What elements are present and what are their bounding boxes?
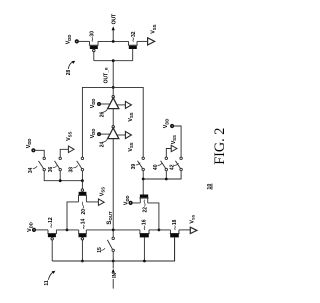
VDD terminal (for switch 34) <box>32 149 35 152</box>
svg-text:30: 30 <box>89 31 95 37</box>
label 38 <box>69 166 78 173</box>
junction T22/rail <box>158 229 161 232</box>
svg-text:VSS: VSS <box>128 112 134 121</box>
input bus <box>52 238 174 261</box>
wire VDD to transistor 12 <box>35 229 48 231</box>
OUT arrow <box>112 26 115 41</box>
left switch bus <box>44 171 82 181</box>
inverter 26 VDD pin <box>98 103 111 106</box>
svg-text:16: 16 <box>142 219 148 225</box>
label 40 <box>153 163 162 170</box>
gate of transistor 32 <box>132 49 134 61</box>
wire inverter 26 to inverter 24 <box>112 109 114 126</box>
svg-text:VSS: VSS <box>171 135 177 144</box>
label 26 <box>100 109 108 117</box>
VSS symbol (switch 40 feed) <box>171 145 177 151</box>
transistor 30 (PMOS) <box>89 41 99 51</box>
label 32 <box>131 31 137 41</box>
VSS symbol (transistor 20) <box>98 199 104 205</box>
IN arrow <box>112 261 115 289</box>
label 34 <box>28 166 37 173</box>
switch 39 <box>138 157 145 171</box>
node OUT_B junction <box>112 86 115 89</box>
svg-text:FIG. 2: FIG. 2 <box>212 128 228 165</box>
transistor 22 (MOS cap, gate up) <box>132 179 159 230</box>
wire transistor 32 to VSS <box>137 40 148 42</box>
label 24 <box>100 139 108 147</box>
svg-text:VDD: VDD <box>26 139 32 149</box>
svg-text:VDD: VDD <box>163 119 169 129</box>
transistor 16 (NMOS) <box>139 230 149 261</box>
svg-text:32: 32 <box>131 31 137 37</box>
wire VDD to switch 34 <box>35 150 44 157</box>
label 22 <box>143 200 149 213</box>
VSS symbol (top right) <box>148 38 155 45</box>
label 30 <box>89 31 95 42</box>
svg-text:VSS: VSS <box>128 142 134 151</box>
label 10 underlined <box>207 184 213 190</box>
svg-text:15: 15 <box>97 247 103 253</box>
label 42 <box>170 163 179 170</box>
VSS symbol (bottom right) <box>190 227 197 233</box>
svg-text:22: 22 <box>143 207 149 213</box>
wire transistor 12 to transistor 14 <box>56 229 78 231</box>
svg-text:VSS: VSS <box>99 187 105 196</box>
label 39 <box>131 163 140 170</box>
wire VSS to switch 36 <box>60 149 68 157</box>
svg-text:VDD: VDD <box>124 195 130 205</box>
junction T16 gate / input bus <box>143 260 146 263</box>
label 20 <box>81 202 87 215</box>
VSS symbol (switch 36) <box>68 146 74 152</box>
svg-text:14: 14 <box>81 219 87 225</box>
inverter 26 <box>108 87 119 108</box>
svg-text:VSS: VSS <box>66 131 72 140</box>
label 16 <box>142 219 148 229</box>
wire VDD to switch 42 <box>174 126 182 157</box>
VDD terminal (switch 42 feed) <box>171 125 174 128</box>
node SOUT junction <box>112 229 115 232</box>
transistor 18 (NMOS) <box>170 230 180 261</box>
svg-text:20: 20 <box>81 209 87 215</box>
transistor 20 (MOS cap, gate up) <box>67 181 98 230</box>
OUT_B rail <box>82 87 143 157</box>
right switch bus <box>143 171 181 179</box>
wire transistor 14 to SOUT node <box>86 229 140 231</box>
label 14 <box>81 219 87 229</box>
VDD terminal (transistor 22) <box>129 202 132 205</box>
junction switch39 bus <box>142 178 145 181</box>
transistor 12 (PMOS) <box>47 230 57 261</box>
inverter 24 VDD pin <box>98 133 111 136</box>
svg-text:28: 28 <box>66 70 72 76</box>
node OUT junction <box>112 40 115 43</box>
label 36 <box>48 165 57 172</box>
gate bus wire <box>94 60 133 62</box>
svg-text:12: 12 <box>48 217 54 223</box>
VDD terminal (top, for transistor 30) <box>76 40 79 43</box>
label 11 with arrow <box>44 271 55 286</box>
node IN junction <box>112 260 115 263</box>
wire VSS to switch 40 <box>166 149 171 158</box>
switch 42 <box>175 157 182 171</box>
svg-text:VSS: VSS <box>189 214 195 223</box>
svg-text:OUT: OUT <box>112 13 118 24</box>
wire VDD to transistor 30 <box>78 40 89 42</box>
label 28 with arrow <box>66 61 76 75</box>
wire SOUT to switch 15 <box>112 230 114 237</box>
switch 36 <box>55 157 62 171</box>
label 15 <box>97 247 105 253</box>
svg-text:26: 26 <box>100 112 106 118</box>
svg-text:VDD: VDD <box>27 222 33 232</box>
VDD terminal (input stage) <box>33 229 36 232</box>
switch 40 <box>161 157 168 171</box>
wire switch 15 to IN node <box>112 252 114 261</box>
junction switch38 bus <box>81 179 84 182</box>
svg-text:VDD: VDD <box>66 35 72 45</box>
junction switch40 bus <box>165 178 168 181</box>
svg-text:IN: IN <box>112 273 118 278</box>
label 12 <box>48 217 54 227</box>
switch 34 <box>39 157 46 171</box>
transistor 32 (NMOS) <box>128 41 138 49</box>
inverter 26 VSS pin <box>116 101 131 108</box>
svg-text:11: 11 <box>44 280 50 286</box>
inverter 24 <box>108 126 119 139</box>
wire transistor 18 to VSS <box>179 229 190 231</box>
junction T14 gate / input bus <box>81 260 84 263</box>
junction switch36 bus <box>59 179 62 182</box>
wire transistor 16 to transistor 18 <box>149 229 170 231</box>
junction on gate bus <box>112 59 115 62</box>
inverter 24 VSS pin <box>116 132 131 139</box>
switch 15 <box>107 237 114 251</box>
svg-text:VSS: VSS <box>151 24 157 33</box>
switch 38 <box>77 157 84 171</box>
junction T20/rail <box>66 229 69 232</box>
wire transistor30 to OUT node <box>98 40 129 42</box>
svg-text:24: 24 <box>100 142 106 148</box>
svg-text:18: 18 <box>172 219 178 225</box>
transistor 14 (PMOS) <box>78 230 87 261</box>
svg-text:VDD: VDD <box>90 129 96 139</box>
gate of transistor 30 <box>93 52 95 61</box>
wire gate bus to OUT_B rail <box>112 61 114 88</box>
wire inverter 24 to SOUT node <box>112 139 114 230</box>
svg-text:39: 39 <box>131 164 137 170</box>
svg-text:VDD: VDD <box>90 99 96 109</box>
label 18 <box>172 219 178 229</box>
